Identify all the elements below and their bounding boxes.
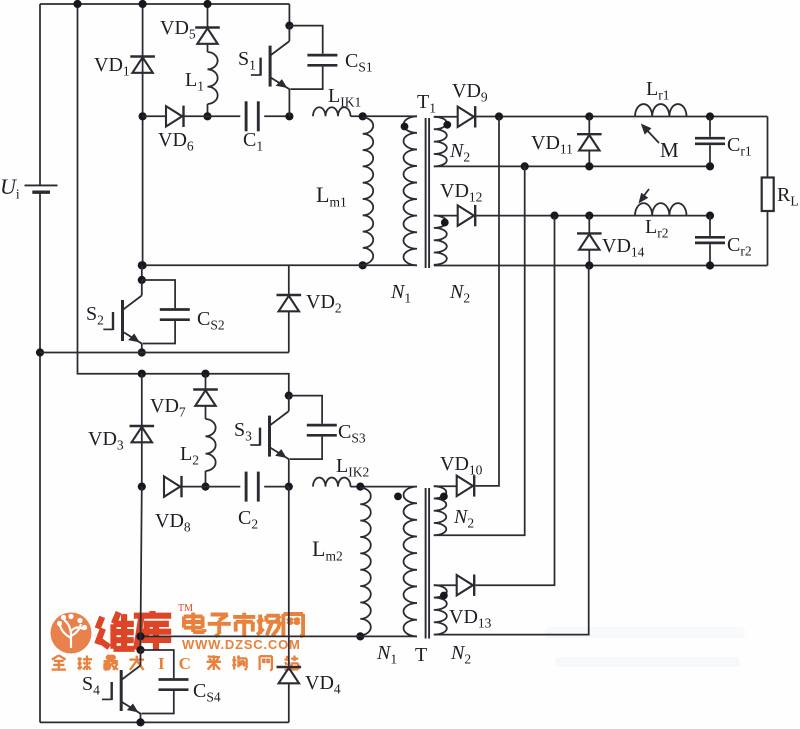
node T1 primary polarity dot bbox=[401, 123, 409, 131]
svg-text:M: M bbox=[660, 138, 679, 162]
diode VD4 bbox=[277, 667, 302, 683]
resistor RL bbox=[762, 178, 774, 212]
node rail D / VD3 branch bbox=[138, 370, 146, 378]
label S2 bbox=[86, 303, 104, 328]
node S2 emitter / rail C bbox=[138, 348, 146, 356]
transformer T1 secondary lower winding bbox=[434, 216, 447, 265]
watermark text 维库 bbox=[97, 603, 193, 650]
transistor S4 bbox=[102, 650, 141, 722]
watermark text 电子市场网 bbox=[184, 613, 303, 637]
node rail3 / connector3 bbox=[550, 212, 558, 220]
label CS3 bbox=[338, 421, 366, 446]
wire S4 branch vertical bbox=[141, 487, 142, 637]
inductor Lm2 bbox=[360, 488, 370, 635]
wire VD5-L1 branch top bbox=[207, 4, 209, 28]
node T2 secondary upper polarity dot bbox=[440, 493, 448, 501]
diode VD5 bbox=[195, 28, 220, 44]
svg-text:N1: N1 bbox=[390, 281, 411, 306]
wire connector1 rail1 to VD10 bbox=[476, 117, 500, 486]
label N1 T2 bbox=[376, 642, 397, 667]
wire LIK1 to T1 primary bbox=[351, 115, 418, 117]
svg-text:VD5: VD5 bbox=[160, 17, 196, 42]
transistor S3 bbox=[250, 396, 289, 487]
transformer T1 secondary upper winding bbox=[434, 117, 447, 167]
label N1 T1 bbox=[390, 281, 411, 306]
svg-text:S2: S2 bbox=[86, 303, 104, 328]
svg-text:N2: N2 bbox=[453, 506, 474, 531]
label T2 bbox=[415, 644, 427, 666]
wire connector3 rail3 to VD13 bbox=[476, 216, 555, 586]
svg-text:CS4: CS4 bbox=[193, 680, 221, 705]
wire rail2 bbox=[434, 165, 710, 167]
wire VD3 branch vertical bbox=[141, 374, 143, 487]
wire top rail bbox=[40, 3, 289, 5]
node rail2 end Cr1 bbox=[706, 162, 714, 170]
label Cr1 bbox=[727, 134, 752, 159]
node T2 primary polarity dot bbox=[394, 493, 402, 501]
wire VD6 row left bbox=[143, 115, 166, 117]
svg-text:S4: S4 bbox=[82, 673, 100, 698]
wire VD1 branch vertical bbox=[142, 4, 144, 265]
diode VD12 bbox=[458, 205, 476, 226]
wire L2 to VD8 row bbox=[205, 471, 207, 487]
label S4 bbox=[82, 673, 100, 698]
svg-text:S3: S3 bbox=[234, 419, 252, 444]
node S4 emitter / bottom rail bbox=[136, 718, 144, 726]
svg-text:CS2: CS2 bbox=[197, 308, 225, 333]
wire rail3 VD12 to Cr2 bbox=[476, 215, 711, 217]
node rail3 / Cr2 bbox=[706, 212, 714, 220]
svg-text:L2: L2 bbox=[180, 443, 199, 468]
svg-text:N2: N2 bbox=[450, 642, 471, 667]
label VD3 bbox=[88, 428, 124, 453]
wire left edge top (to battery) bbox=[39, 4, 41, 185]
svg-text:T: T bbox=[415, 644, 427, 666]
svg-text:LIK2: LIK2 bbox=[336, 455, 369, 480]
diode VD9 bbox=[458, 106, 476, 127]
capacitor C2 bbox=[246, 472, 258, 502]
capacitor CS3 bbox=[289, 396, 337, 460]
node Lm1 bottom bbox=[359, 261, 367, 269]
wire connector4 rail4 to T2 sec lower bbox=[434, 266, 589, 635]
label Lm1 bbox=[316, 182, 347, 210]
node rail4 / VD14 bottom bbox=[585, 261, 593, 269]
decorative ghost bbox=[545, 627, 745, 667]
node left-rail-C junction bbox=[36, 348, 44, 356]
label CS4 bbox=[193, 680, 221, 705]
svg-text:N2: N2 bbox=[449, 281, 470, 306]
node rail B / S2 collector branch bbox=[138, 261, 146, 269]
svg-text:Ui: Ui bbox=[0, 174, 20, 202]
label N2 T1 upper bbox=[449, 140, 470, 165]
wire rail1 to VD11 bbox=[588, 117, 590, 135]
node top rail / second vertical bbox=[73, 0, 81, 8]
wire rail B bbox=[143, 264, 417, 266]
label VD8 bbox=[155, 510, 191, 535]
svg-text:L1: L1 bbox=[185, 69, 204, 94]
wire T2 sec upper top to VD10 bbox=[434, 485, 457, 487]
svg-text:CS3: CS3 bbox=[338, 421, 366, 446]
label VD9 bbox=[452, 80, 488, 105]
node rail1 / Cr1 bbox=[706, 112, 714, 120]
label C1 bbox=[243, 129, 263, 154]
wire VD11 to rail2 bbox=[588, 151, 590, 167]
svg-text:VD9: VD9 bbox=[452, 80, 488, 105]
label LIK1 bbox=[328, 85, 361, 110]
capacitor Cr1 bbox=[695, 117, 725, 167]
wire LIK2 to T2 primary bbox=[351, 486, 418, 488]
inductor L1 bbox=[208, 52, 218, 104]
node rail D / VD7 branch bbox=[201, 370, 209, 378]
svg-text:VD6: VD6 bbox=[158, 129, 194, 154]
node S1 collector bbox=[285, 22, 293, 30]
transformer T2 primary winding bbox=[403, 487, 417, 637]
svg-text:VD13: VD13 bbox=[449, 606, 492, 631]
capacitor CS2 bbox=[142, 280, 190, 344]
node rail1 / VD11 bbox=[585, 112, 593, 120]
svg-text:VD8: VD8 bbox=[155, 510, 191, 535]
wire rail4 bbox=[434, 265, 768, 267]
transformer T2 secondary lower winding bbox=[434, 585, 447, 634]
transformer T1 primary winding bbox=[403, 116, 417, 265]
node Lm1 top bbox=[359, 112, 367, 120]
node top rail / VD5 branch bbox=[203, 0, 211, 8]
transistor S1 bbox=[251, 26, 290, 117]
label M bbox=[660, 138, 679, 162]
svg-text:VD2: VD2 bbox=[306, 291, 342, 316]
wire VD14 to rail4 bbox=[588, 250, 590, 266]
wire top rail corner to S1 collector bbox=[288, 4, 290, 26]
node rail4 / Cr2 bottom bbox=[706, 261, 714, 269]
svg-text:C2: C2 bbox=[238, 507, 258, 532]
capacitor Cr2 bbox=[695, 216, 725, 266]
node S3 emitter / C2 row bbox=[285, 483, 293, 491]
watermark text 全球最大IC采购网站 bbox=[52, 654, 299, 673]
svg-text:VD7: VD7 bbox=[150, 395, 186, 420]
svg-text:TM: TM bbox=[178, 603, 193, 614]
label VD5 bbox=[160, 17, 196, 42]
inductor Lr2 bbox=[635, 203, 687, 215]
svg-text:Cr1: Cr1 bbox=[727, 134, 752, 159]
diode VD10 bbox=[457, 475, 475, 496]
node VD1 branch / rail B bbox=[139, 261, 147, 269]
wire connector2 rail2 to T2 sec upper bbox=[434, 166, 525, 535]
transformer T1 core bbox=[426, 118, 430, 268]
inductor LIK1 bbox=[313, 107, 351, 116]
wire T2 sec lower top to VD13 bbox=[434, 584, 457, 586]
svg-text:LIK1: LIK1 bbox=[328, 85, 361, 110]
label L1 bbox=[185, 69, 204, 94]
node T1 secondary upper polarity dot bbox=[443, 121, 451, 129]
label RL bbox=[777, 184, 799, 209]
transformer T2 secondary upper winding bbox=[434, 486, 446, 535]
svg-text:VD3: VD3 bbox=[88, 428, 124, 453]
wire S2 collector stub bbox=[141, 265, 143, 280]
node rail2 / VD11 bottom bbox=[585, 162, 593, 170]
node S4 collector bbox=[136, 646, 144, 654]
transistor S2 bbox=[103, 280, 142, 353]
watermark url bbox=[182, 637, 301, 652]
svg-text:VD1: VD1 bbox=[94, 54, 130, 79]
diode VD7 bbox=[193, 390, 218, 406]
wire rail1 to RL bbox=[767, 117, 769, 178]
wire S4 collector stub bbox=[140, 636, 142, 650]
node Lm2 top bbox=[356, 483, 364, 491]
node S1 emitter / C1 / LIK1 bbox=[285, 112, 293, 120]
label T1 bbox=[417, 91, 436, 116]
wire T1 sec upper top to VD9 bbox=[434, 116, 458, 118]
label Cr2 bbox=[727, 234, 752, 259]
svg-text:VD4: VD4 bbox=[305, 672, 341, 697]
label S3 bbox=[234, 419, 252, 444]
label Lm2 bbox=[312, 536, 343, 564]
svg-text:RL: RL bbox=[777, 184, 799, 209]
inductor Lm1 bbox=[363, 118, 374, 265]
label VD1 bbox=[94, 54, 130, 79]
diode VD11 bbox=[577, 134, 602, 150]
svg-text:C1: C1 bbox=[243, 129, 263, 154]
capacitor CS1 bbox=[289, 26, 337, 90]
inductor LIK2 bbox=[313, 478, 351, 487]
wire C1 to S1 emitter node bbox=[264, 115, 289, 117]
wire left edge bottom (battery to bottom rail) bbox=[39, 193, 41, 723]
node top rail / VD1 branch bbox=[139, 0, 147, 8]
battery Ui bbox=[25, 185, 58, 192]
wire C2 to S3 emitter bbox=[264, 486, 289, 488]
label LIK2 bbox=[336, 455, 369, 480]
label S1 bbox=[238, 48, 256, 73]
wire VD4 vertical bbox=[288, 487, 290, 723]
node L2 / VD8 row bbox=[201, 483, 209, 491]
svg-text:IC: IC bbox=[158, 654, 205, 673]
wire VD8 to C2 bbox=[183, 486, 241, 488]
node Lm2 bottom bbox=[356, 632, 364, 640]
label VD7 bbox=[150, 395, 186, 420]
svg-text:CS1: CS1 bbox=[345, 50, 373, 75]
diode VD8 bbox=[164, 476, 182, 497]
diode VD1 bbox=[130, 57, 155, 73]
label C2 bbox=[238, 507, 258, 532]
node T1 secondary lower polarity dot bbox=[441, 219, 449, 227]
node rail2 / connector2 bbox=[521, 162, 529, 170]
svg-text:VD11: VD11 bbox=[531, 132, 573, 157]
diode VD14 bbox=[577, 233, 602, 249]
inductor Lr1 bbox=[635, 104, 687, 116]
wire VD6 to C1 bbox=[185, 115, 241, 117]
capacitor C1 bbox=[246, 101, 258, 131]
capacitor CS4 bbox=[141, 650, 189, 714]
wire rail C bbox=[40, 352, 289, 354]
node T2 secondary lower polarity dot bbox=[440, 592, 448, 600]
label Lr2 bbox=[645, 216, 668, 241]
label Lr1 bbox=[646, 78, 669, 103]
label VD4 bbox=[305, 672, 341, 697]
svg-text:N2: N2 bbox=[449, 140, 470, 165]
label CS2 bbox=[197, 308, 225, 333]
label N2 T1 lower bbox=[449, 281, 470, 306]
svg-text:Lr1: Lr1 bbox=[646, 78, 669, 103]
inductor L2 bbox=[206, 419, 216, 471]
wire rail3 to VD14 bbox=[588, 216, 590, 234]
arrow M pointer bbox=[641, 124, 659, 144]
svg-text:Lm1: Lm1 bbox=[316, 182, 347, 210]
wire VD2 vertical bbox=[288, 265, 290, 352]
label VD10 bbox=[440, 453, 483, 478]
wire VD7 branch top bbox=[205, 374, 207, 390]
svg-text:Cr2: Cr2 bbox=[727, 234, 752, 259]
diode VD13 bbox=[457, 575, 475, 596]
node rail1 / connector1 bbox=[495, 112, 503, 120]
diode VD2 bbox=[277, 295, 302, 311]
arrow Lr2 pointer bbox=[639, 189, 650, 204]
node S2 collector bbox=[138, 276, 146, 284]
node L1 / VD6 row bbox=[203, 112, 211, 120]
node VD1 branch / VD6 row bbox=[139, 112, 147, 120]
label VD2 bbox=[306, 291, 342, 316]
wire second vertical feed bbox=[78, 4, 289, 396]
label VD13 bbox=[449, 606, 492, 631]
svg-text:S1: S1 bbox=[238, 48, 256, 73]
label N2 T2 upper bbox=[453, 506, 474, 531]
wire VD7 to L2 bbox=[205, 406, 207, 419]
svg-text:Lm2: Lm2 bbox=[312, 536, 343, 564]
wire T1 sec lower top to VD12 bbox=[434, 215, 458, 217]
label VD11 bbox=[531, 132, 573, 157]
wire L1 to VD6 row bbox=[207, 104, 209, 116]
label VD6 bbox=[158, 129, 194, 154]
transformer T2 core bbox=[426, 488, 430, 639]
label VD14 bbox=[602, 235, 645, 260]
wire rail F bbox=[141, 635, 418, 637]
diode VD3 bbox=[130, 426, 155, 442]
wire RL to rail4 bbox=[767, 211, 769, 266]
label N2 T2 lower bbox=[450, 642, 471, 667]
node VD3 branch / VD8 row bbox=[138, 483, 146, 491]
wire VD5 to L1 bbox=[207, 44, 209, 52]
svg-text:WWW.DZSC.COM: WWW.DZSC.COM bbox=[182, 637, 301, 652]
wire rail1 VD9 to right edge bbox=[476, 116, 768, 118]
watermark logo circle bbox=[51, 613, 92, 654]
diode VD6 bbox=[166, 106, 184, 127]
label VD12 bbox=[440, 180, 482, 205]
svg-text:T1: T1 bbox=[417, 91, 436, 116]
node rail F / S4 branch bbox=[136, 632, 144, 640]
node rail3 / VD14 bbox=[585, 212, 593, 220]
label CS1 bbox=[345, 50, 373, 75]
svg-text:VD10: VD10 bbox=[440, 453, 483, 478]
label L2 bbox=[180, 443, 199, 468]
svg-text:Lr2: Lr2 bbox=[645, 216, 668, 241]
svg-text:N1: N1 bbox=[376, 642, 397, 667]
wire bottom rail bbox=[40, 721, 289, 723]
svg-text:VD14: VD14 bbox=[602, 235, 645, 260]
node S3 collector bbox=[285, 392, 293, 400]
label Ui bbox=[0, 174, 20, 202]
svg-text:VD12: VD12 bbox=[440, 180, 482, 205]
